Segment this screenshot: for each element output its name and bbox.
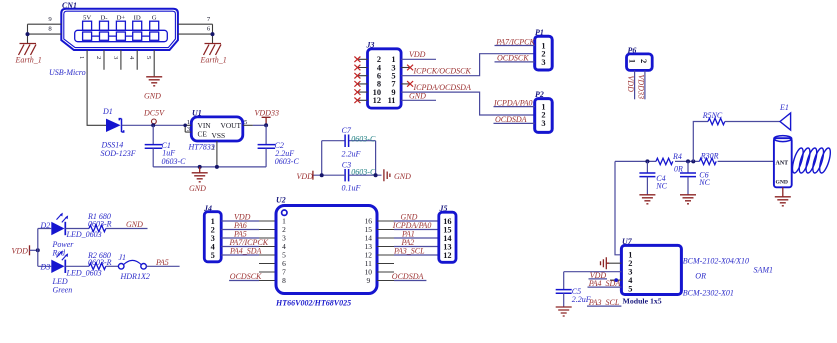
svg-text:GND: GND [409,91,426,100]
svg-text:5: 5 [211,251,215,260]
ground Earth_1 right [200,44,227,65]
svg-text:ANT: ANT [776,160,789,166]
svg-text:D2: D2 [40,221,51,230]
svg-text:DC5V: DC5V [143,108,165,117]
svg-text:PA4_SDA: PA4_SDA [588,279,621,288]
svg-text:GND: GND [144,92,161,101]
svg-text:R4: R4 [672,152,682,161]
svg-text:HDR1X2: HDR1X2 [120,272,150,281]
ground under ANT module [775,187,791,206]
ground GND under U1 [189,167,208,193]
svg-text:5V: 5V [83,15,91,22]
capacitor C4 NC [639,161,667,194]
svg-text:OCDSDA: OCDSDA [392,272,424,281]
svg-text:0603-C: 0603-C [351,134,376,143]
ground sideways at U7 pin2 [601,257,622,269]
svg-text:1: 1 [187,119,190,126]
svg-text:USB-Micro: USB-Micro [49,68,86,77]
wire U2 pin16 GND to J5 [377,220,394,222]
svg-text:VDD33: VDD33 [255,108,279,117]
wire D3 to R2 [65,265,89,267]
MCU U2 HT66V002 [275,196,377,308]
pin U2 pin10 stub [377,271,394,273]
svg-text:NC: NC [698,178,710,187]
svg-text:D1: D1 [102,107,113,116]
svg-text:PA3_SCL: PA3_SCL [588,298,620,307]
svg-text:5: 5 [628,284,632,293]
svg-text:LED_0603: LED_0603 [66,268,102,277]
svg-text:U2: U2 [276,196,286,205]
svg-text:3: 3 [541,119,545,128]
svg-text:VDD: VDD [297,172,314,181]
wire riser to R5 [693,122,780,162]
svg-text:0603-C: 0603-C [275,157,300,166]
svg-text:D-: D- [100,15,107,22]
wire J3 pin11 GND [401,99,436,101]
wire R2 to J1 [106,265,119,267]
capacitor C5 2.2uF [556,287,591,307]
svg-text:11: 11 [388,96,396,105]
svg-text:Green: Green [53,286,73,295]
svg-text:Red: Red [52,248,66,257]
svg-text:1: 1 [78,56,85,59]
svg-text:GND: GND [394,172,411,181]
wire D1 to U1 [122,124,186,126]
connector J1 HDR1X2 jumper [118,253,149,281]
svg-text:HT66V002/HT68V025: HT66V002/HT68V025 [275,298,351,307]
svg-text:VDD: VDD [12,246,29,255]
connector J4 [203,204,221,262]
module U7 1x5 [621,237,681,306]
svg-text:D3: D3 [40,262,51,271]
svg-text:ID: ID [134,15,141,22]
svg-text:BCM-2302-X01: BCM-2302-X01 [683,288,734,297]
capacitor C1 1uF [145,125,186,167]
wire U2 pin12 PA3_SCL to J5 [377,254,394,256]
svg-text:1: 1 [628,59,637,63]
svg-text:8: 8 [282,276,286,285]
svg-text:G: G [152,15,157,22]
wire R1 to GND label [106,228,148,230]
wire main RF rail [615,160,774,162]
wire ground rail under U1 [153,166,266,168]
wire D2 to R1 [65,228,89,230]
wire J3 pin9 to P2 pin2 [401,92,535,115]
svg-text:OCDSCK: OCDSCK [497,54,529,63]
svg-text:2: 2 [212,145,215,152]
wire LED branch [38,229,52,267]
svg-text:C7: C7 [342,126,352,135]
resistor R5 NC [702,111,725,125]
wire U1 VOUT to VDD33 [253,124,266,126]
wire U7 pin4 PA4_SDA [610,279,621,281]
svg-text:9: 9 [366,276,370,285]
ground GND under CN1 [144,77,162,101]
svg-text:Earth_1: Earth_1 [15,56,42,65]
pin J3 pin7 no-connect [401,83,410,85]
connector J3 [354,40,401,108]
wire J1 to PA5 [146,265,179,267]
svg-text:VDD33: VDD33 [636,75,645,99]
wire U2 pin9 OCDSDA [377,280,394,282]
pin U2 pin11 stub [377,263,394,265]
wire J4 pin2 PA6 to U2 [221,229,259,231]
svg-text:ICPDA/PA0: ICPDA/PA0 [493,98,533,107]
connector J5 [439,204,457,262]
resistor R3 0R [699,151,718,164]
connector P1 [535,28,553,70]
ground Earth_1 left [15,44,42,65]
pin J3 pin3 no-connect [401,67,410,69]
svg-text:E1: E1 [779,103,789,112]
svg-text:CE: CE [198,129,208,138]
node C4 junction [645,159,649,163]
LED D3 Green [40,250,102,294]
svg-text:VSS: VSS [212,131,226,140]
capacitor C2 2.2uF [258,125,300,167]
op-amp U1 HT7833 regulator [183,109,253,167]
svg-text:GND: GND [776,179,788,185]
wire J4 pin4 PA7/ICPCK to U2 [221,246,259,248]
resistor R4 0R [656,152,683,173]
svg-text:C3: C3 [342,161,351,170]
LED D2 Power Red [40,213,102,258]
power VDD port left of C3 [297,171,314,182]
antenna E1 [779,103,791,130]
svg-text:OCDSCK: OCDSCK [230,272,262,281]
wire CN1 pin5 to GND [153,50,155,76]
wire CN1 pin1 to D1 [87,50,106,125]
svg-text:Module 1x5: Module 1x5 [623,296,662,305]
svg-text:OCDSDA: OCDSDA [495,115,527,124]
svg-text:OR: OR [695,271,706,280]
svg-text:D+: D+ [117,15,126,22]
wire P1 pin1 PA7/ICPCK [495,45,535,47]
svg-text:12: 12 [443,251,451,260]
svg-text:VDD: VDD [626,76,635,93]
power VDD33 [255,108,279,127]
antenna module ANT/GND SAM1 [774,136,792,188]
wire U2 pin14 PA1 to J5 [377,237,394,239]
wire P2 pin3 OCDSDA [494,122,535,124]
wire P6 pin1 VDD [634,70,636,99]
svg-text:PA3_SCL: PA3_SCL [393,247,425,256]
wire U2 pin8 OCDSCK [229,280,259,282]
svg-text:PA4_SDA: PA4_SDA [229,247,262,256]
wire CN1 bottom stubs pins 2-4 [104,50,137,70]
wire CN1 pins 9/8 to earth left [26,24,62,43]
svg-text:PA5: PA5 [155,258,169,267]
svg-text:3: 3 [541,58,545,67]
svg-text:0R: 0R [674,165,683,174]
capacitor C3 0.1uF [342,161,376,193]
wire U7 pin3 VDD to C5 [564,272,622,290]
ground under C6 [680,195,696,204]
svg-text:Earth_1: Earth_1 [200,56,227,65]
wire riser to U7 pin1 [615,161,621,254]
svg-text:VDD: VDD [409,50,426,59]
svg-text:SOD-123F: SOD-123F [101,149,136,158]
svg-text:0.1uF: 0.1uF [342,183,361,192]
antenna helix coil [790,147,832,174]
wire U2 pin13 PA2 to J5 [377,246,394,248]
svg-text:BCM-2102-X04/X10: BCM-2102-X04/X10 [683,257,749,266]
capacitor C7 2.2uF [322,126,376,158]
svg-text:2: 2 [95,56,102,59]
svg-text:ICPCK/OCDSCK: ICPCK/OCDSCK [413,67,472,76]
svg-text:PA7/ICPCK: PA7/ICPCK [495,37,535,46]
pin U2 pin6 stub [259,263,276,265]
wire P2 pin1 ICPDA/PA0 [494,106,535,108]
svg-text:R5NC: R5NC [702,111,723,120]
svg-text:NC: NC [655,182,667,191]
resistor R2 680 [87,251,112,270]
wire J4 pin3 PA5 to U2 [221,237,259,239]
svg-text:GND: GND [126,220,143,229]
connector P6 [627,46,653,70]
wire C7/C3 loop [313,141,382,176]
capacitor C6 NC [680,161,711,194]
wire P1 pin3 OCDSCK [495,61,535,63]
svg-text:0603-C: 0603-C [162,157,187,166]
svg-text:LED_0603: LED_0603 [66,230,102,239]
svg-text:2.2uF: 2.2uF [342,149,361,158]
wire J3 pin1 VDD [401,58,436,60]
ground GND right of C3 [384,169,411,181]
svg-text:VOUT: VOUT [221,121,242,130]
node C6 junction [686,159,690,163]
ground under C5 [556,307,572,316]
wire CN1 pins 7/6 to earth right [178,24,215,43]
wire J3 pin5 to P1 pin2 [401,54,535,76]
wire U2 pin15 ICPDA/PA0 to J5 [377,229,394,231]
resistor R1 680 [87,212,112,232]
connector P2 [535,90,553,132]
svg-text:SAM1: SAM1 [754,265,774,274]
svg-text:2: 2 [639,59,648,63]
svg-text:R30R: R30R [700,151,719,160]
wire P6 pin2 VDD33 [644,70,646,99]
node DC5V [143,108,165,127]
wire J4 pin1 VDD to U2 [221,220,259,222]
power VDD port for LEDs [12,245,40,255]
diode D1 DSS14 [101,107,136,158]
connector CN1 USB-Micro [48,1,211,77]
pin U2 pin7 stub [259,271,276,273]
ground under C4 [639,195,655,204]
svg-text:J1: J1 [119,253,127,262]
svg-text:GND: GND [189,184,206,193]
node R5 riser junction [691,159,695,163]
svg-text:12: 12 [373,96,381,105]
wire J4 pin5 PA4_SDA to U2 [221,254,259,256]
